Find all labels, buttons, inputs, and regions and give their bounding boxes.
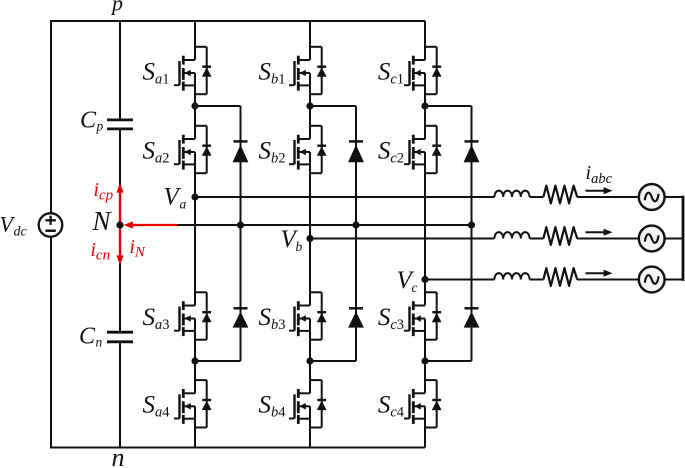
wire dc-link column p to C_p	[119, 21, 121, 120]
wire leg b: m1b to S_b2	[309, 106, 311, 126]
wire left rail upper segment	[50, 21, 52, 213]
transistor S_c1 (N-MOSFET with body diode)	[404, 47, 442, 94]
resistor phase b	[543, 227, 577, 245]
wire clamp branch leg c (m1c - N - m2c)	[425, 106, 472, 361]
node m2c junction dot	[421, 357, 428, 364]
resistor phase c	[543, 268, 577, 286]
wire phase c resistor to ac source	[577, 279, 639, 281]
clamp diode D_a1	[233, 141, 249, 162]
svg-text:N: N	[92, 206, 113, 236]
wire ac source phase a to right bus	[664, 196, 683, 198]
clamp diode D_b2	[348, 308, 364, 327]
node m1a junction dot	[191, 102, 198, 109]
resistor phase a	[543, 186, 577, 204]
node clamp-c on neutral rail junction dot	[468, 221, 475, 228]
transistor S_c4 (N-MOSFET with body diode)	[404, 380, 442, 427]
capacitor C_n	[107, 332, 133, 342]
ac source phase c	[639, 267, 665, 293]
wire n rail (bottom dc bus)	[50, 447, 425, 449]
wire S_c2 source to output node V_c and down to S_c3	[424, 164, 426, 292]
wire leg a: m2a to S_a4	[194, 361, 196, 380]
wire leg c: m2c to S_c4	[424, 361, 426, 380]
wire leg c: p rail to S_c1	[424, 21, 426, 47]
transistor S_a1 (N-MOSFET with body diode)	[174, 47, 212, 94]
wire right bus joining ac sources	[682, 196, 685, 281]
wire ac source phase b to right bus	[664, 238, 683, 240]
node clamp-a on neutral rail junction dot	[237, 221, 244, 228]
node V_a junction dot	[191, 193, 198, 200]
wire phase a inductor to resistor	[530, 196, 544, 198]
wire S_c4 source to n rail	[424, 419, 426, 448]
node m1b junction dot	[306, 102, 313, 109]
wire phase a output from V_a to filter	[195, 196, 494, 198]
inductor phase b	[494, 232, 529, 238]
wire node N to C_n	[119, 263, 121, 332]
wire S_c3 source to midpoint m2c	[424, 331, 426, 361]
wire clamp branch leg a (m1a - N - m2a)	[195, 106, 241, 361]
wire phase c inductor to resistor	[530, 279, 544, 281]
red current arrow i_N (neutral current into node N)	[124, 221, 178, 228]
wire p rail (top dc bus)	[50, 20, 425, 22]
wire S_b4 source to n rail	[309, 419, 311, 448]
clamp diode D_c1	[464, 141, 480, 162]
red current arrow i_cn (capacitor current down)	[116, 225, 123, 265]
wire phase b output from V_b to filter	[310, 238, 494, 240]
wire phase a resistor to ac source	[577, 196, 639, 198]
node N junction dot	[116, 221, 123, 228]
wire clamp branch leg b (m1b - N - m2b)	[310, 106, 356, 361]
wire ac source phase c to right bus	[664, 279, 683, 281]
transistor S_b2 (N-MOSFET with body diode)	[289, 126, 327, 173]
red current arrow i_cp (capacitor current up)	[116, 183, 123, 225]
wire phase c output from V_c to filter	[425, 279, 494, 281]
transistor S_a3 (N-MOSFET with body diode)	[174, 292, 212, 339]
wire S_a1 source to midpoint m1a	[194, 85, 196, 106]
wire S_b1 source to midpoint m1b	[309, 85, 311, 106]
wire S_b3 source to midpoint m2b	[309, 331, 311, 361]
node m2a junction dot	[191, 357, 198, 364]
transistor S_b3 (N-MOSFET with body diode)	[289, 292, 327, 339]
ac source phase b	[639, 226, 665, 252]
transistor S_c3 (N-MOSFET with body diode)	[404, 292, 442, 339]
wire leg b: m2b to S_b4	[309, 361, 311, 380]
wire leg b: p rail to S_b1	[309, 21, 311, 47]
wire leg c: m1c to S_c2	[424, 106, 426, 126]
wire S_b2 source to output node V_b and down to S_b3	[309, 164, 311, 292]
wire leg a: m1a to S_a2	[194, 106, 196, 126]
clamp diode D_a2	[233, 308, 249, 327]
wire S_a3 source to midpoint m2a	[194, 331, 196, 361]
transistor S_a4 (N-MOSFET with body diode)	[174, 380, 212, 427]
current direction arrow phase b	[586, 229, 613, 236]
ac source phase a	[639, 184, 665, 210]
node V_b junction dot	[306, 235, 313, 242]
wire C_p to node N	[119, 129, 121, 186]
node m1c junction dot	[421, 102, 428, 109]
wire left rail lower segment	[50, 237, 52, 448]
wire S_c1 source to midpoint m1c	[424, 85, 426, 106]
node V_c junction dot	[421, 276, 428, 283]
wire S_a2 source to output node V_a and down to S_a3	[194, 164, 196, 292]
wire phase b inductor to resistor	[530, 238, 544, 240]
wire leg a: p rail to S_a1	[194, 21, 196, 47]
wire C_n to n rail	[119, 342, 121, 448]
transistor S_b1 (N-MOSFET with body diode)	[289, 47, 327, 94]
transistor S_a2 (N-MOSFET with body diode)	[174, 126, 212, 173]
capacitor C_p	[107, 120, 133, 129]
svg-text:p: p	[110, 0, 123, 16]
clamp diode D_c2	[464, 308, 480, 327]
wire phase b resistor to ac source	[577, 238, 639, 240]
inductor phase c	[494, 273, 529, 279]
transistor S_c2 (N-MOSFET with body diode)	[404, 126, 442, 173]
clamp diode D_b1	[348, 141, 364, 162]
transistor S_b4 (N-MOSFET with body diode)	[289, 380, 327, 427]
current direction arrow phase c	[586, 270, 613, 277]
node clamp-b on neutral rail junction dot	[352, 221, 359, 228]
current direction arrow phase a	[586, 187, 613, 194]
wire neutral rail N to clamp columns	[176, 224, 472, 226]
inductor phase a	[494, 191, 529, 197]
wire S_a4 source to n rail	[194, 419, 196, 448]
node m2b junction dot	[306, 357, 313, 364]
dc source V_dc	[39, 213, 63, 237]
svg-text:n: n	[112, 443, 125, 468]
